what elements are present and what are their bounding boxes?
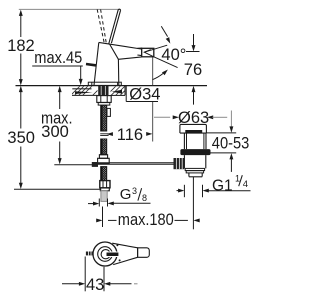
svg-text:G1: G1 [212, 177, 233, 194]
svg-text:40-53: 40-53 [212, 135, 250, 153]
svg-text:40°: 40° [161, 46, 186, 64]
svg-text:43: 43 [86, 276, 104, 294]
svg-text:4: 4 [243, 179, 248, 190]
svg-text:182: 182 [7, 37, 35, 55]
svg-text:G: G [120, 186, 132, 203]
svg-text:116: 116 [117, 126, 143, 144]
svg-text:350: 350 [7, 129, 35, 147]
svg-text:8: 8 [142, 193, 147, 203]
svg-text:76: 76 [184, 61, 202, 79]
svg-text:300: 300 [41, 123, 69, 141]
svg-text:max.45: max.45 [34, 49, 82, 67]
svg-text:Ø63: Ø63 [178, 109, 209, 127]
svg-text:max.180: max.180 [118, 211, 174, 229]
svg-text:1: 1 [235, 174, 240, 184]
svg-text:Ø34: Ø34 [129, 86, 160, 104]
svg-text:3: 3 [132, 186, 137, 196]
